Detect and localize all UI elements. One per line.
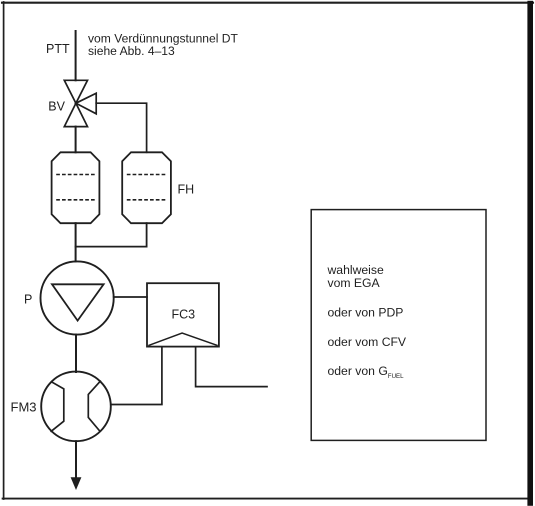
wire inlet from top bbox=[75, 31, 77, 80]
frame bottom border bbox=[3, 498, 531, 500]
wire filter to pump bbox=[75, 223, 77, 261]
wire FC3 to FM3 line bbox=[111, 347, 162, 405]
svg-text:FH: FH bbox=[178, 183, 195, 197]
svg-text:P: P bbox=[24, 293, 32, 307]
flow meter FM3 internals left bbox=[51, 382, 64, 432]
box alternatives bbox=[311, 210, 486, 441]
controller FC3 box bbox=[147, 283, 219, 346]
flow meter FM3 internals right bbox=[88, 381, 100, 431]
wire FM3 outlet bbox=[75, 441, 77, 479]
svg-text:oder von GFUEL: oder von GFUEL bbox=[328, 364, 405, 380]
pump P triangle bbox=[52, 284, 104, 320]
svg-text:PTT: PTT bbox=[46, 42, 70, 56]
frame left border bbox=[3, 2, 5, 499]
filter F left dashed screens bbox=[57, 174, 94, 176]
frame right thick bar bbox=[527, 1, 533, 506]
arrow outlet bbox=[71, 477, 82, 490]
wire FH outlet to main line bbox=[76, 223, 147, 246]
svg-text:siehe Abb. 4–13: siehe Abb. 4–13 bbox=[88, 44, 175, 58]
svg-text:vom EGA: vom EGA bbox=[328, 276, 381, 290]
wire valve to filter FH bbox=[96, 103, 146, 152]
svg-text:FC3: FC3 bbox=[172, 308, 196, 322]
wire pump to FM3 bbox=[75, 335, 77, 372]
frame top border bbox=[2, 2, 533, 4]
flow meter FM3 circle bbox=[41, 372, 111, 442]
wire FC3 to alternatives bbox=[196, 347, 267, 387]
valve BV bbox=[64, 80, 96, 126]
svg-text:FM3: FM3 bbox=[11, 400, 37, 415]
wire valve to left filter bbox=[75, 127, 77, 153]
svg-text:BV: BV bbox=[48, 100, 65, 114]
svg-text:oder von PDP: oder von PDP bbox=[328, 306, 404, 320]
wire pump to FC3 bbox=[114, 296, 147, 298]
filter FH dashed screens bbox=[128, 174, 166, 176]
pump P circle bbox=[41, 261, 114, 334]
filter FH bbox=[122, 152, 171, 223]
filter F left bbox=[52, 152, 100, 223]
svg-text:oder vom CFV: oder vom CFV bbox=[328, 335, 407, 349]
controller FC3 funnel bbox=[149, 333, 217, 345]
